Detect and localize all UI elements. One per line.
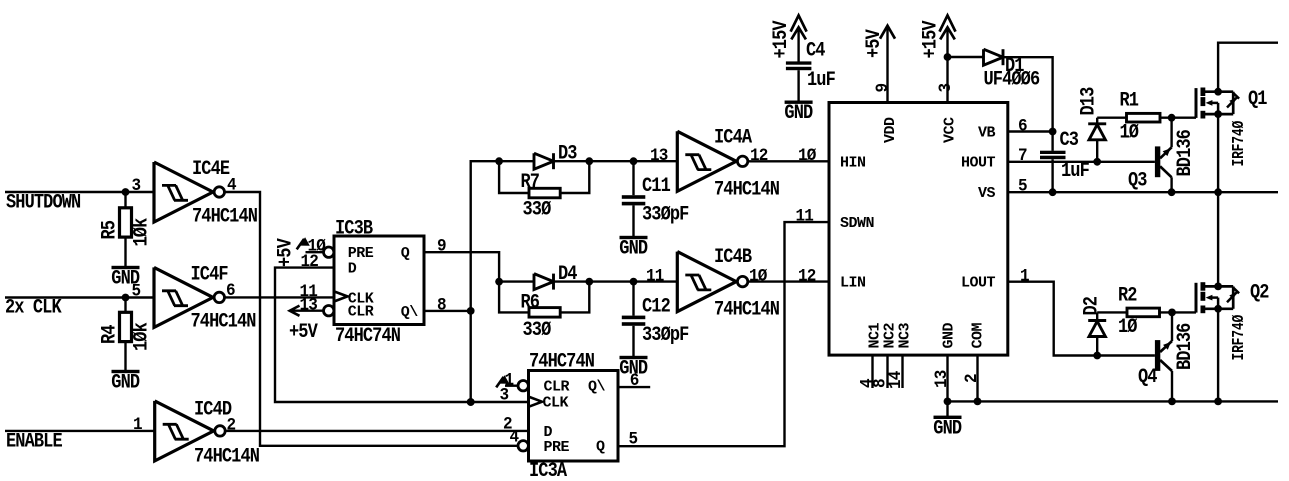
diode D3 bbox=[534, 142, 577, 169]
inverter IC4F (74HC14N) bbox=[132, 263, 256, 333]
svg-text:12: 12 bbox=[798, 267, 816, 287]
wire IC4B output to LIN bbox=[747, 280, 829, 282]
svg-text:VCC: VCC bbox=[942, 117, 959, 143]
wire IC3A CLR pin 1 bbox=[505, 385, 518, 387]
svg-text:IC3A: IC3A bbox=[529, 460, 568, 481]
svg-text:+5V: +5V bbox=[274, 237, 297, 267]
node junction D3 anode bbox=[495, 157, 503, 165]
wire R1 right lead to Q1 gate bbox=[1160, 116, 1196, 118]
wire D1 cathode to VB node bbox=[1003, 57, 1053, 131]
svg-text:+15V: +15V bbox=[770, 20, 793, 59]
svg-text:NC3: NC3 bbox=[897, 322, 914, 348]
power +5V left arrow at IC3B CLR bbox=[289, 306, 319, 344]
svg-text:5: 5 bbox=[132, 282, 141, 302]
wire C12 to ground bbox=[632, 326, 634, 358]
svg-text:R1: R1 bbox=[1120, 89, 1139, 112]
svg-text:33Ø: 33Ø bbox=[523, 319, 552, 342]
svg-text:33ØpF: 33ØpF bbox=[642, 203, 689, 226]
svg-text:Q\: Q\ bbox=[588, 379, 606, 396]
svg-text:12: 12 bbox=[301, 252, 319, 272]
svg-text:13: 13 bbox=[932, 370, 952, 388]
power +5V arrow at IC3B PRE bbox=[297, 237, 310, 249]
diode D4 bbox=[534, 263, 577, 290]
node junction VB / C3 bbox=[1049, 128, 1057, 136]
wire R6 left lead bbox=[499, 282, 529, 313]
capacitor C4 1uF bbox=[786, 28, 836, 92]
svg-text:IRF74Ø: IRF74Ø bbox=[1231, 121, 1249, 167]
svg-text:74HC14N: 74HC14N bbox=[191, 310, 256, 333]
wire VCC pin 3 bbox=[946, 28, 948, 103]
svg-text:GND: GND bbox=[111, 371, 140, 394]
wire R4 to ground bbox=[124, 342, 126, 372]
svg-text:GND: GND bbox=[619, 237, 648, 260]
wire VB pin 6 bbox=[1008, 130, 1053, 132]
svg-text:1Ø: 1Ø bbox=[1120, 121, 1139, 144]
svg-text:5: 5 bbox=[1018, 177, 1027, 197]
node junction feedback/CLK net bbox=[467, 398, 475, 406]
wire LOUT pin 1 to Q4 base bbox=[1008, 282, 1155, 356]
wire D3 cathode to IC4A input bbox=[553, 160, 677, 162]
resistor R1 10 bbox=[1120, 89, 1161, 144]
svg-text:13: 13 bbox=[300, 296, 318, 316]
wire IC3B CLR pin 13 bbox=[291, 310, 324, 312]
wire Q1 source to VS bbox=[1217, 114, 1219, 192]
svg-text:IC4F: IC4F bbox=[191, 263, 229, 286]
diode D2 bbox=[1080, 296, 1106, 355]
svg-text:Q4: Q4 bbox=[1138, 366, 1157, 389]
wire IC4E output to IC3A PRE bbox=[225, 192, 518, 446]
wire NC1 stub pin 4 bbox=[871, 355, 873, 388]
svg-text:2x CLK: 2x CLK bbox=[5, 296, 62, 319]
wire IC4D output to IC3A D bbox=[224, 430, 528, 432]
svg-text:COM: COM bbox=[970, 322, 987, 348]
svg-text:11: 11 bbox=[646, 267, 664, 287]
svg-text:Q\: Q\ bbox=[401, 304, 419, 321]
svg-text:+5V: +5V bbox=[289, 321, 319, 344]
svg-text:Q3: Q3 bbox=[1128, 169, 1147, 192]
svg-text:Q2: Q2 bbox=[1250, 281, 1269, 304]
wire Q2 source to rail bbox=[1217, 309, 1219, 402]
svg-text:D13: D13 bbox=[1077, 87, 1100, 116]
wire vertical feedback to D3 row and CLK net bbox=[471, 161, 534, 402]
wire IC3B D / IC3A CLK net bbox=[275, 268, 529, 402]
transistor Q2 IRF740 MOSFET bbox=[1196, 281, 1269, 360]
resistor R4 10k bbox=[98, 312, 153, 351]
svg-text:SDWN: SDWN bbox=[840, 215, 875, 232]
svg-text:1Ø: 1Ø bbox=[798, 146, 816, 166]
svg-text:R6: R6 bbox=[521, 291, 540, 314]
diode D13 bbox=[1077, 87, 1106, 162]
svg-text:VB: VB bbox=[978, 125, 996, 142]
svg-text:13: 13 bbox=[650, 146, 668, 166]
ground symbol below IC bbox=[933, 416, 962, 440]
node junction C3 / VS bbox=[1049, 188, 1057, 196]
node junction Q\ vertical bbox=[467, 307, 475, 315]
svg-text:Q1: Q1 bbox=[1248, 88, 1267, 111]
pin 8 wire IC3B Q\ bbox=[424, 310, 471, 312]
power +15V arrow at C4 bbox=[770, 15, 807, 58]
wire R1 left lead bbox=[1097, 116, 1126, 118]
svg-text:1Ø: 1Ø bbox=[749, 267, 767, 287]
ground below C12 bbox=[619, 356, 648, 380]
node junction CLK/R4 bbox=[122, 294, 130, 302]
node junction C11 tap bbox=[630, 157, 638, 165]
node junction VCC / D1 anode bbox=[944, 53, 952, 61]
svg-text:R5: R5 bbox=[98, 220, 121, 239]
diode D1 UF4006 bbox=[984, 49, 1041, 91]
svg-text:6: 6 bbox=[630, 371, 639, 391]
wire R7 left lead bbox=[499, 161, 529, 193]
power +5V arrow at VDD bbox=[863, 26, 895, 58]
resistor R6 330 bbox=[521, 291, 561, 341]
wire R2 left lead bbox=[1097, 311, 1127, 313]
svg-text:7: 7 bbox=[1018, 146, 1027, 166]
wire to D4 anode bbox=[499, 280, 534, 282]
inverter IC4B (74HC14N) bbox=[646, 246, 779, 321]
svg-text:1Øk: 1Øk bbox=[130, 322, 153, 351]
wire VCC to D1 bbox=[948, 56, 984, 58]
svg-text:PRE: PRE bbox=[544, 439, 570, 456]
wire NC2 stub pin 8 bbox=[886, 355, 888, 388]
svg-text:74HC14N: 74HC14N bbox=[714, 178, 779, 201]
capacitor C12 330pF bbox=[622, 282, 689, 347]
wire VS pin 5 rail bbox=[1008, 191, 1278, 193]
svg-text:R4: R4 bbox=[98, 325, 121, 344]
node junction GND pin rail bbox=[944, 398, 952, 406]
svg-text:HOUT: HOUT bbox=[961, 155, 996, 172]
ground below C4 bbox=[784, 101, 813, 125]
svg-text:VDD: VDD bbox=[882, 117, 899, 143]
transistor Q3 BD136 bbox=[1128, 118, 1196, 193]
wire R7 right lead bbox=[560, 161, 589, 193]
svg-text:LOUT: LOUT bbox=[961, 275, 996, 292]
node junction Q2 source / rail bbox=[1214, 398, 1222, 406]
svg-text:2: 2 bbox=[227, 416, 236, 436]
flip-flop IC3A 74HC74N bbox=[518, 350, 618, 481]
wire HOUT pin 7 to Q3 base bbox=[1008, 161, 1155, 163]
svg-text:1Ø: 1Ø bbox=[1118, 316, 1137, 339]
svg-text:GND: GND bbox=[933, 417, 962, 440]
svg-text:74HC74N: 74HC74N bbox=[335, 325, 400, 348]
resistor R2 10 bbox=[1118, 284, 1160, 338]
svg-text:74HC14N: 74HC14N bbox=[714, 298, 779, 321]
inverter IC4A (74HC14N) bbox=[650, 126, 779, 201]
wire C4 to ground bbox=[797, 70, 799, 102]
svg-text:1uF: 1uF bbox=[1061, 160, 1090, 183]
IC gate driver box bbox=[829, 103, 1008, 356]
wire Q1 drain to top rail bbox=[1218, 43, 1278, 92]
wire IC4A output to HIN bbox=[747, 160, 829, 162]
transistor Q4 BD136 bbox=[1138, 312, 1196, 401]
svg-text:C3: C3 bbox=[1060, 129, 1079, 152]
wire SHUTDOWN input bbox=[5, 191, 154, 193]
svg-text:+5V: +5V bbox=[863, 28, 886, 58]
node junction D4 anode bbox=[495, 278, 503, 286]
power +5V arrow at IC3A CLR bbox=[496, 375, 509, 387]
svg-text:IC4E: IC4E bbox=[192, 158, 230, 181]
svg-text:IC4B: IC4B bbox=[714, 246, 752, 269]
capacitor C11 330pF bbox=[622, 161, 689, 226]
svg-text:3: 3 bbox=[936, 83, 956, 92]
svg-text:11: 11 bbox=[796, 207, 814, 227]
svg-text:R7: R7 bbox=[521, 171, 540, 194]
svg-text:14: 14 bbox=[886, 371, 906, 389]
svg-text:IC3B: IC3B bbox=[335, 217, 373, 240]
svg-text:UF4ØØ6: UF4ØØ6 bbox=[984, 68, 1041, 91]
wire C11 to ground bbox=[632, 205, 634, 237]
svg-text:74HC74N: 74HC74N bbox=[529, 350, 594, 373]
svg-text:12: 12 bbox=[750, 146, 768, 166]
svg-text:CLR: CLR bbox=[348, 304, 374, 321]
svg-text:HIN: HIN bbox=[840, 155, 866, 172]
pin 10 PRE wire IC3B bbox=[306, 251, 324, 253]
svg-text:2: 2 bbox=[962, 374, 982, 383]
svg-text:74HC14N: 74HC14N bbox=[194, 445, 259, 468]
node junction LOUT / D2 bbox=[1093, 352, 1101, 360]
svg-text:33ØpF: 33ØpF bbox=[642, 324, 689, 347]
inverter IC4D (74HC14N) bbox=[133, 398, 259, 468]
pin 9 wire IC3B Q to D4 row bbox=[424, 252, 499, 281]
svg-text:Q: Q bbox=[401, 245, 410, 262]
svg-text:33Ø: 33Ø bbox=[523, 198, 552, 221]
svg-text:1: 1 bbox=[1020, 267, 1029, 287]
svg-text:GND: GND bbox=[784, 102, 813, 125]
wire R4 top lead bbox=[124, 298, 126, 313]
node junction SHUTDOWN/R5 bbox=[122, 188, 130, 196]
svg-text:+15V: +15V bbox=[919, 20, 942, 59]
wire ENABLE input bbox=[5, 430, 155, 432]
wire IC4F output to IC3B CLK bbox=[225, 296, 334, 298]
node junction HOUT / D13 bbox=[1093, 158, 1101, 166]
wire IC3A Q\ stub pin 6 bbox=[618, 386, 650, 388]
wire NC3 stub pin 14 bbox=[901, 355, 903, 388]
node junction Q1 source / VS bbox=[1214, 188, 1222, 196]
ground below C11 bbox=[619, 236, 648, 260]
svg-text:C4: C4 bbox=[806, 39, 825, 62]
wire R6 right lead bbox=[560, 282, 589, 313]
ground below R5 bbox=[111, 266, 140, 290]
svg-text:CLK: CLK bbox=[543, 395, 569, 412]
wire D4 cathode to IC4B input bbox=[553, 280, 677, 282]
transistor Q1 IRF740 MOSFET bbox=[1196, 88, 1267, 167]
wire VDD pin 9 bbox=[886, 27, 888, 103]
wire COM pin 2 stub bbox=[976, 355, 978, 401]
node junction C12 tap bbox=[630, 278, 638, 286]
wire SDWN to IC3A Q bbox=[618, 222, 829, 446]
svg-text:IC4A: IC4A bbox=[714, 126, 753, 149]
wire Q2 drain to VS bbox=[1217, 192, 1219, 286]
wire R2 right lead to Q2 gate bbox=[1160, 311, 1197, 313]
svg-text:9: 9 bbox=[437, 237, 446, 257]
svg-text:5: 5 bbox=[629, 430, 638, 450]
svg-text:BD136: BD136 bbox=[1174, 129, 1197, 176]
svg-text:LIN: LIN bbox=[840, 275, 866, 292]
wire R5 to ground bbox=[124, 237, 126, 267]
wire GND pin 13 stub bbox=[946, 355, 948, 417]
svg-text:3: 3 bbox=[500, 386, 509, 406]
svg-text:1: 1 bbox=[133, 415, 142, 435]
wire R5 top lead bbox=[124, 192, 126, 208]
capacitor C3 1uF bootstrap bbox=[1040, 129, 1090, 192]
svg-text:1Øk: 1Øk bbox=[130, 218, 153, 247]
svg-text:74HC14N: 74HC14N bbox=[192, 205, 257, 228]
svg-text:9: 9 bbox=[873, 83, 893, 92]
wire 2x CLK input bbox=[5, 296, 154, 298]
node junction R1 / Q3 emitter / Q1 gate bbox=[1168, 114, 1176, 122]
flip-flop IC3B 74HC74N bbox=[324, 217, 425, 347]
svg-text:ENABLE: ENABLE bbox=[6, 430, 63, 453]
svg-text:3: 3 bbox=[132, 176, 141, 196]
svg-text:VS: VS bbox=[978, 185, 996, 202]
node junction R2 / Q4 emitter / Q2 gate bbox=[1168, 309, 1176, 317]
svg-text:R2: R2 bbox=[1118, 284, 1137, 307]
svg-text:IRF74Ø: IRF74Ø bbox=[1231, 315, 1249, 361]
node junction Q4 collector / rail bbox=[1168, 398, 1176, 406]
power +15V arrow at VCC bbox=[919, 15, 955, 58]
svg-text:6: 6 bbox=[1018, 117, 1027, 137]
ground below R4 bbox=[111, 370, 140, 394]
svg-text:8: 8 bbox=[437, 296, 446, 316]
svg-text:C12: C12 bbox=[642, 295, 671, 318]
node junction D4/R6 right bbox=[585, 278, 593, 286]
svg-text:D: D bbox=[348, 261, 357, 278]
node junction Q3 collector / VS bbox=[1168, 188, 1176, 196]
svg-text:BD136: BD136 bbox=[1174, 323, 1197, 370]
svg-text:C11: C11 bbox=[642, 175, 671, 198]
svg-text:GND: GND bbox=[941, 322, 958, 348]
node junction D3/R7 right bbox=[585, 157, 593, 165]
inverter IC4E (74HC14N) bbox=[132, 158, 258, 228]
node junction COM rail bbox=[974, 398, 982, 406]
svg-text:4: 4 bbox=[510, 428, 519, 448]
svg-text:SHUTDOWN: SHUTDOWN bbox=[6, 191, 80, 214]
svg-text:Q: Q bbox=[596, 439, 605, 456]
wire bottom COM/GND rail bbox=[948, 400, 1279, 402]
node junction IC3A CLK bbox=[467, 398, 475, 406]
svg-text:CLR: CLR bbox=[544, 379, 570, 396]
resistor R7 330 bbox=[521, 171, 561, 221]
svg-text:1uF: 1uF bbox=[807, 69, 836, 92]
resistor R5 10k bbox=[98, 208, 153, 247]
